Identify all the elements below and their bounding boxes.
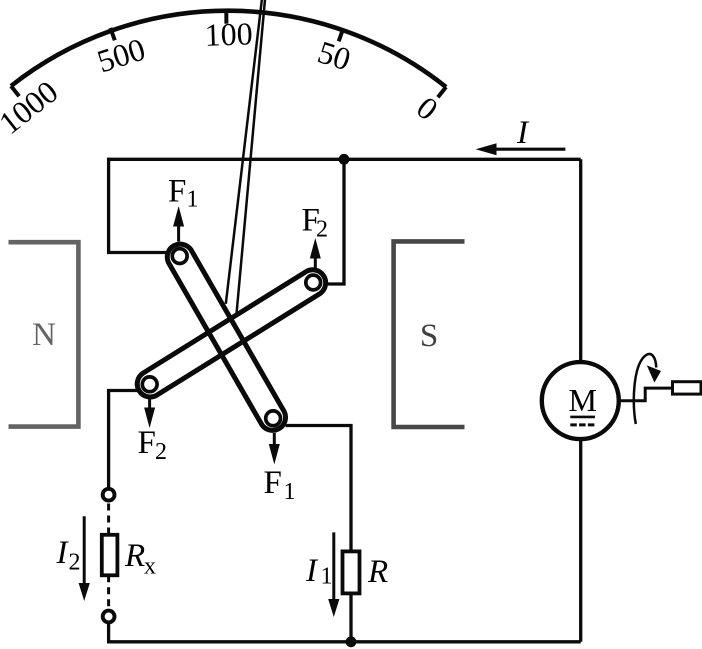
terminal circle (upper) [103, 489, 115, 501]
label F2 (bottom left) [138, 425, 168, 465]
force arrow F1 (up, coil A top) [173, 206, 184, 242]
magnet pole N [9, 242, 79, 426]
current arrow I1 [328, 532, 339, 617]
coil capsule B (shallow) [137, 270, 325, 397]
label I1 [305, 553, 333, 589]
dashed wire below Rx [107, 575, 110, 608]
svg-text:F: F [264, 465, 282, 501]
coil B pivot hole (left) [142, 377, 157, 392]
M solid underline [570, 416, 595, 419]
junction node (top) [339, 154, 350, 165]
svg-text:R: R [124, 538, 145, 574]
svg-text:1: 1 [321, 564, 333, 590]
junction node (bottom) [346, 636, 357, 647]
svg-text:I: I [56, 535, 70, 571]
dashed wire above Rx [107, 504, 110, 535]
svg-text:F: F [168, 174, 186, 210]
wire: top horizontal [107, 158, 581, 161]
coil A pivot hole (bottom) [266, 411, 281, 426]
meter scale arc [11, 11, 446, 87]
current arrow I (top right) [476, 143, 566, 155]
generator M circle [542, 362, 619, 439]
force arrow F2 (up, coil B right) [310, 238, 321, 268]
label F2 (top right) [302, 202, 329, 242]
wire: left vertical to coil A [109, 158, 166, 253]
svg-text:1: 1 [284, 479, 296, 505]
tick 50 [339, 29, 343, 41]
svg-text:x: x [144, 554, 156, 580]
svg-text:100: 100 [204, 15, 253, 53]
svg-text:2: 2 [155, 439, 167, 465]
svg-text:I: I [305, 553, 319, 589]
tick 0 [438, 87, 446, 97]
tick 1000 [11, 86, 19, 96]
current arrow I2 [79, 516, 90, 601]
wire: coil B lower-left to left column [109, 391, 137, 489]
wire: right vertical (top to generator) [579, 159, 582, 360]
label F1 (bottom) [264, 465, 296, 505]
label Rx [124, 538, 156, 579]
M dashed underline [570, 423, 596, 426]
wire: R bottom to bottom wire [349, 591, 352, 642]
crank shaft [621, 388, 673, 401]
coil capsule A (steep) [167, 244, 285, 430]
coil A pivot hole (top) [172, 249, 187, 264]
wire: bottom horizontal [107, 640, 581, 643]
svg-text:S: S [420, 318, 438, 354]
wire: from top junction down to coil B [328, 159, 344, 284]
resistor Rx [102, 535, 118, 576]
label I2 [56, 535, 81, 576]
terminal circle (lower) [103, 611, 115, 623]
magnet pole S [394, 241, 465, 427]
svg-text:R: R [367, 554, 388, 590]
crank handle [673, 382, 702, 394]
force arrow F2 (down, coil B left) [144, 399, 155, 428]
wire: generator bottom to bottom wire [579, 441, 582, 642]
rotation arrow around crank [634, 354, 661, 424]
svg-text:2: 2 [316, 217, 328, 243]
svg-text:1: 1 [187, 187, 199, 213]
svg-text:N: N [32, 317, 56, 353]
force arrow F1 (down, coil A bottom) [269, 433, 280, 465]
wire: coil A lower end to R branch [286, 426, 352, 552]
svg-text:2: 2 [69, 550, 81, 576]
tick 100 [224, 11, 228, 24]
svg-text:F: F [138, 425, 156, 461]
needle (two converging lines) [226, 0, 262, 304]
tick 500 [110, 28, 114, 40]
resistor R [343, 551, 360, 593]
wire: left column above terminal [107, 623, 110, 643]
svg-text:M: M [569, 382, 597, 418]
svg-text:I: I [516, 115, 530, 151]
coil B pivot hole (right) [306, 275, 321, 290]
label F1 (top) [168, 174, 199, 213]
